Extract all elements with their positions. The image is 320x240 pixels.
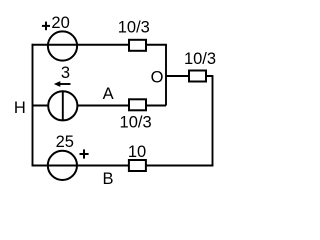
label + of 20V source [42,22,50,31]
resistor 10/3 right (node O branch) [189,71,206,82]
resistor 10/3 middle [129,99,146,110]
voltage source (20 V) top left [48,31,77,60]
svg-text:3: 3 [61,64,70,82]
wire: left vertical rail (node H side) [32,44,34,167]
resistor 10/3 top [129,40,146,51]
wire: node O branch horizontal [166,75,213,77]
label + of 25V source [80,149,89,158]
wire: bottom horizontal [32,165,214,167]
svg-text:10/3: 10/3 [118,19,150,37]
svg-text:H: H [14,99,26,117]
wire: right vertical [212,75,214,166]
current direction arrow [54,81,71,87]
svg-text:B: B [102,170,113,188]
svg-text:10: 10 [128,143,146,161]
svg-text:A: A [103,85,114,103]
resistor 10 bottom [129,160,146,171]
svg-text:25: 25 [56,133,74,151]
wire: top horizontal [32,44,167,46]
wire: upper right vertical (node O rail) [165,45,167,106]
current source (3 A) middle [48,91,77,120]
wire: middle horizontal [33,105,167,107]
svg-text:10/3: 10/3 [120,114,152,132]
svg-text:O: O [151,68,164,86]
svg-text:10/3: 10/3 [184,50,216,68]
svg-text:20: 20 [51,14,69,32]
voltage source (25 V) bottom [48,151,77,180]
